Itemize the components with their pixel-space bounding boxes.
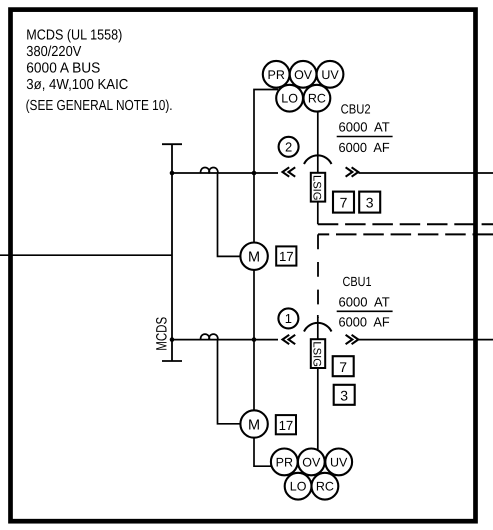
node bus/branch junction (CBU1) — [170, 337, 175, 342]
CT coil (CBU1) — [201, 334, 218, 340]
note text block — [26, 28, 173, 114]
node bus/branch junction — [170, 171, 175, 176]
svg-text:UV: UV — [321, 68, 339, 82]
svg-text:6000 AT: 6000 AT — [339, 294, 390, 309]
svg-text:LSIG: LSIG — [311, 341, 323, 367]
bus top cap — [162, 143, 182, 145]
wire lower M to bottom relay cluster — [254, 438, 272, 467]
drawout stab left (CBU2) — [283, 167, 296, 176]
svg-text:6000 AF: 6000 AF — [339, 140, 390, 155]
wire junction down to lower meter M — [253, 340, 255, 411]
svg-text:MCDS: MCDS — [154, 317, 171, 351]
bus MCDS vertical — [171, 144, 173, 361]
CT coil — [201, 168, 218, 174]
svg-text:UV: UV — [330, 455, 348, 469]
drawout stab left (CBU1) — [283, 335, 296, 344]
incoming feed wire from left — [0, 254, 172, 256]
svg-text:OV: OV — [294, 68, 313, 82]
node branch/meter junction — [252, 171, 257, 176]
svg-text:7: 7 — [339, 359, 347, 375]
wire below trip unit to dashed line — [317, 202, 319, 225]
svg-text:M: M — [248, 417, 260, 433]
node branch/meter junction (CBU1) — [252, 337, 257, 342]
drawout stab right (CBU2) — [346, 167, 359, 176]
svg-text:6000 AF: 6000 AF — [339, 315, 390, 330]
svg-text:CBU2: CBU2 — [341, 101, 371, 116]
trip unit LSIG (CBU2) — [311, 173, 325, 202]
svg-text:380/220V: 380/220V — [26, 44, 81, 60]
svg-text:6000 AT: 6000 AT — [339, 120, 390, 135]
fraction bar — [337, 136, 393, 138]
relay UV bottom — [325, 449, 352, 476]
svg-text:CBU1: CBU1 — [343, 274, 372, 289]
dashed control line to CBU1 from right — [318, 233, 493, 235]
relay OV — [290, 61, 317, 88]
bus bottom cap — [162, 360, 182, 362]
svg-text:(SEE GENERAL NOTE 10).: (SEE GENERAL NOTE 10). — [26, 98, 173, 114]
relay RC bottom — [312, 473, 339, 500]
svg-text:MCDS (UL 1558): MCDS (UL 1558) — [26, 28, 122, 44]
breaker CBU2 drawout arc — [304, 155, 332, 164]
svg-text:LO: LO — [281, 92, 298, 106]
relay UV — [317, 61, 344, 88]
trip unit LSIG (CBU1) — [311, 339, 325, 368]
wire upper M down to lower branch — [253, 270, 255, 340]
device box 17 lower — [276, 415, 296, 434]
dashed vertical interlock wire down to CBU1 — [317, 234, 319, 318]
wire CT to meter M — [218, 174, 241, 257]
wire arc to trip unit (CBU1) — [317, 315, 319, 340]
breaker number circle 2 — [279, 137, 299, 157]
wire junction up to relay cluster — [254, 90, 278, 174]
dashed control line from CBU2 trip to right — [318, 223, 493, 225]
wire RC down to breaker — [317, 111, 319, 174]
relay LO — [276, 85, 303, 112]
accessory box 3 (CBU1) — [334, 385, 355, 405]
svg-text:3: 3 — [340, 387, 348, 403]
wire bus to breaker — [172, 172, 278, 174]
svg-text:6000 A BUS: 6000 A BUS — [26, 60, 100, 76]
relay PR — [263, 61, 290, 88]
device box 17 upper — [276, 246, 296, 265]
accessory box 7 (CBU1) — [333, 356, 354, 376]
svg-text:LSIG: LSIG — [311, 175, 323, 201]
svg-text:RC: RC — [316, 480, 334, 494]
relay OV bottom — [298, 449, 325, 476]
svg-text:2: 2 — [285, 140, 292, 155]
wire junction down to meter M — [253, 173, 255, 243]
wire below trip unit to bottom relay cluster — [317, 367, 319, 451]
svg-text:17: 17 — [279, 249, 294, 264]
relay cluster bottom: PR OV UV LO RC — [271, 449, 352, 500]
breaker CBU1 drawout arc — [304, 323, 332, 332]
svg-text:LO: LO — [290, 480, 307, 494]
accessory box 7 (CBU2) — [333, 192, 354, 213]
meter M upper — [240, 243, 267, 270]
relay RC — [304, 85, 331, 112]
svg-text:7: 7 — [340, 195, 348, 211]
svg-text:PR: PR — [268, 68, 285, 82]
accessory box 3 (CBU2) — [359, 192, 380, 213]
svg-text:RC: RC — [308, 92, 326, 106]
svg-text:3: 3 — [366, 195, 374, 211]
outgoing wire right (CBU2) — [359, 172, 493, 174]
relay cluster top: PR OV UV LO RC — [263, 61, 344, 112]
svg-text:3ø, 4W,100 KAIC: 3ø, 4W,100 KAIC — [26, 77, 128, 93]
svg-text:M: M — [248, 250, 260, 266]
svg-text:OV: OV — [302, 455, 321, 469]
fraction bar (CBU1) — [337, 310, 393, 312]
meter M lower — [240, 410, 267, 437]
svg-text:1: 1 — [285, 311, 292, 326]
relay LO bottom — [285, 473, 312, 500]
outgoing wire right (CBU1) — [359, 339, 493, 341]
breaker number circle 1 — [278, 308, 298, 328]
svg-text:PR: PR — [276, 455, 293, 469]
wire CT to meter M (CBU1) — [218, 340, 241, 424]
relay PR bottom — [271, 449, 298, 476]
svg-text:17: 17 — [279, 418, 294, 433]
drawout stab right (CBU1) — [346, 335, 359, 344]
wire bus to breaker (CBU1) — [172, 339, 278, 341]
